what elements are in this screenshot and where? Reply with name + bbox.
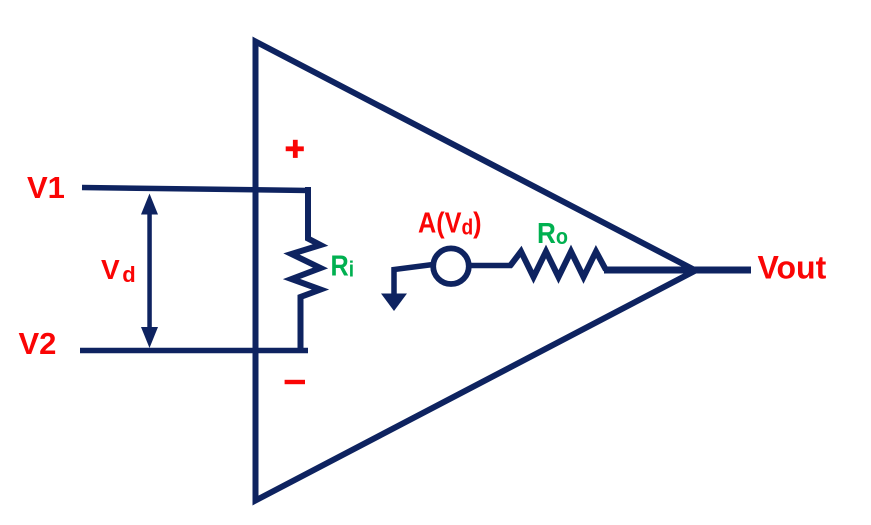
svg-text:Vd: Vd [101,254,136,287]
wire V1 input line [82,188,309,191]
resistor Ro [510,252,606,278]
svg-text:A(Vd): A(Vd) [418,206,482,240]
op-amp noninverting input label + [286,140,304,158]
node V2 label [19,326,57,361]
wire Ro to output Vout [604,267,751,274]
op-amp inverting input label - [285,380,305,384]
node Vout label [758,250,827,286]
node V1 label [27,170,65,205]
Ri label [331,249,355,282]
resistor Ri [292,187,321,352]
wire V2 input line [80,348,308,354]
ground arrowhead [381,294,407,312]
A(Vd) label [418,206,482,240]
svg-text:V2: V2 [19,326,57,361]
Ro label [537,217,568,250]
svg-text:V1: V1 [27,170,65,205]
Vd measurement double arrow [141,194,158,349]
op-amp U1 triangle body [256,42,696,501]
svg-text:Ro: Ro [537,217,568,250]
dependent source A(Vd) circle [433,248,469,284]
wire source to Ro [468,263,512,269]
svg-text:Ri: Ri [331,249,355,282]
wire source to ground arrow [394,265,433,296]
svg-text:Vout: Vout [758,250,827,286]
